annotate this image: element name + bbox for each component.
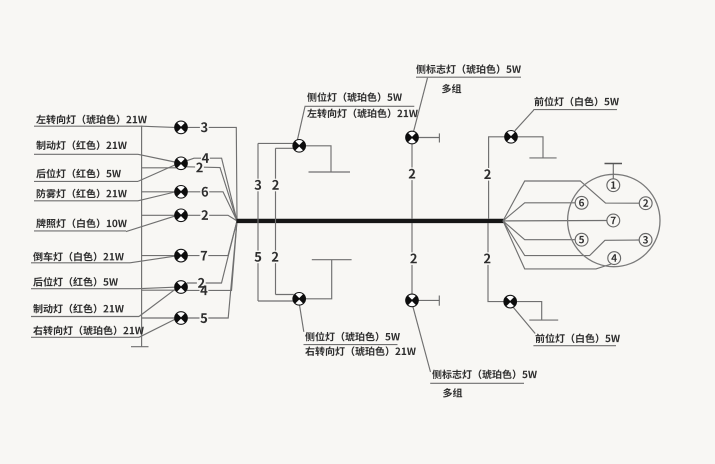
lamp SM1 side marker top [406, 131, 419, 144]
text: 2 [409, 169, 416, 179]
wire circuit 2 wire L6 [187, 221, 237, 283]
wire circuit 3 horizontal [258, 142, 294, 144]
wire label underline brake left [34, 153, 138, 155]
connector pin 3 [639, 234, 652, 247]
text: 侧标志灯（琥珀色）5W [416, 64, 425, 73]
wire label underline M1 [305, 105, 415, 107]
wire leader license plate [126, 216, 175, 231]
text: 6 [202, 187, 208, 197]
text: 倒车灯（白色）21W [33, 252, 42, 261]
connector pin 6 [575, 196, 588, 209]
wire leader side marker bottom label [413, 306, 431, 372]
wire circuit 2 horizontal top [276, 147, 294, 149]
lamp FP2 front position bottom [504, 295, 517, 308]
text: 前位灯（白色）5W [535, 97, 544, 106]
wire label underline M2 [304, 344, 398, 346]
ground bar FP2 [529, 319, 558, 321]
wire stub lamp L2 [142, 167, 176, 169]
lamp L3 fog [175, 186, 188, 199]
wire side marker top tail [418, 137, 439, 139]
wire lamp M1 ground lead [306, 146, 332, 172]
text: 4 [611, 254, 616, 261]
text: 5 [200, 313, 207, 323]
wire to pin 2 [503, 181, 639, 221]
lamp M1 side position/left turn front [293, 140, 306, 153]
wire circuit 4 wire L6 [187, 221, 237, 291]
wire stub lamp L4 [142, 214, 176, 216]
wire circuit 3 wire [187, 127, 237, 220]
text: 多组 [443, 388, 452, 397]
wire main harness trunk [237, 219, 504, 223]
connector pin 2 [639, 197, 652, 210]
connector pin 1 [607, 179, 620, 192]
lamp L6 tail/brake [175, 281, 188, 294]
ground bar M1 [309, 171, 351, 173]
wire leader side marker top label [414, 78, 428, 132]
wire branch circuit 2 vertical mid [275, 148, 277, 294]
wire to pin 4 [503, 221, 611, 269]
wire circuit 7 wire [187, 221, 237, 256]
text: 7 [201, 251, 207, 261]
wire leader brake left [138, 154, 175, 162]
connector pin 4 [608, 252, 621, 265]
wire circuit 4 wire upper [187, 158, 238, 221]
wire label underline front position bottom [533, 345, 616, 347]
text: 2 [484, 253, 491, 263]
wire lamp FP2 ground lead [516, 302, 541, 320]
text: 3 [201, 122, 208, 132]
text: 侧位灯（琥珀色）5W [305, 332, 314, 341]
lamp FP1 front position top [505, 131, 518, 144]
text: 5 [579, 236, 584, 244]
text: 7 [611, 217, 616, 224]
text: 右转向灯（琥珀色）21W [33, 326, 42, 335]
wire branch front position bottom [488, 223, 504, 302]
lamp L2 brake/tail [175, 157, 188, 170]
text: 前位灯（白色）5W [536, 334, 545, 343]
wire to pin 6 [503, 203, 575, 221]
terminal tick side marker top [438, 133, 440, 142]
ground bar FP1 [529, 157, 556, 159]
text: 4 [200, 286, 207, 296]
digit halos [200, 121, 209, 134]
wire leader label M2 [300, 305, 304, 332]
wire branch side marker bottom [411, 223, 413, 294]
wire leader left turn rear [142, 126, 175, 127]
text: 6 [579, 199, 584, 207]
text: 左转向灯（琥珀色）21W [36, 115, 45, 124]
lamp L5 reverse [175, 249, 188, 262]
text: 2 [196, 163, 203, 173]
wire leader label M1 [298, 107, 306, 140]
wire circuit 2 wire L4 [187, 215, 237, 221]
wire circuit 5 horizontal [258, 300, 294, 302]
wire stub lamp L5 [142, 255, 176, 257]
wire circuit 6 wire [187, 192, 237, 221]
wire leader reverse [130, 256, 175, 263]
wire label underline brake right [31, 316, 139, 318]
text: 2 [198, 278, 205, 288]
wire bus bottom tick [131, 346, 149, 348]
text: 侧标志灯（琥珀色）5W [432, 370, 441, 379]
text: 2 [410, 253, 417, 263]
ground bar M2 [312, 259, 352, 261]
text: 2 [643, 199, 648, 207]
wire label underline reverse [31, 262, 130, 264]
text: 右转向灯（琥珀色）21W [305, 347, 314, 356]
text: 后位灯（红色）5W [33, 277, 43, 286]
wire label underline rear fog [34, 200, 138, 202]
wire to pin 7 [503, 220, 607, 222]
connector pin 7 [607, 214, 620, 227]
lamp L7 right turn [175, 312, 188, 325]
text: 2 [272, 252, 279, 262]
wire label underline right turn rear [31, 336, 139, 338]
text: 制动灯（红色）21W [33, 304, 42, 313]
text: 多组 [442, 84, 451, 93]
text: 3 [643, 236, 648, 244]
text: 2 [202, 210, 209, 220]
wire leader front position top label [515, 110, 534, 131]
wire label underline left turn rear [34, 125, 142, 127]
wire stub lamp L6 [142, 289, 176, 291]
wire stub lamp L3 [142, 191, 176, 193]
connector socket outline [568, 174, 660, 266]
text: 4 [202, 153, 209, 163]
wire circuit 2 horizontal bottom [276, 294, 294, 296]
text: 2 [272, 180, 279, 190]
wire label bus vertical [141, 126, 143, 347]
wire circuit 2 wire L2 [187, 167, 237, 221]
wire leader rear fog [138, 192, 175, 201]
wire label underline side marker bottom [430, 382, 524, 384]
wire label underline tail right [31, 288, 138, 290]
text: 左转向灯（琥珀色）21W [307, 109, 316, 118]
wire to pin 5 [503, 221, 575, 240]
terminal tick side marker bottom [438, 296, 440, 306]
lamp L1 left turn [175, 121, 188, 134]
text: 牌照灯（白色）10W [36, 219, 45, 228]
connector index key above pin 1 [612, 164, 614, 179]
text: 5 [255, 252, 262, 262]
lamp SM2 side marker bottom [406, 294, 419, 307]
wire lamp FP1 ground lead [517, 137, 543, 158]
wire leader tail right [138, 287, 175, 289]
wire side marker bottom tail [418, 299, 439, 301]
text: 2 [484, 169, 491, 179]
text: 3 [255, 180, 262, 190]
connector pin 5 [575, 233, 588, 246]
wire branch circuit 3 vertical [257, 143, 259, 301]
wire label underline tail left [34, 180, 138, 182]
lamp L4 license [175, 209, 188, 222]
text: 后位灯（红色）5W [36, 169, 46, 178]
wire leader brake right [139, 290, 175, 317]
wire label underline front position top [533, 109, 617, 111]
text: 1 [611, 181, 616, 188]
wire lamp M2 ground lead [306, 260, 332, 299]
text: 制动灯（红色）21W [36, 141, 45, 150]
wire leader right turn rear [139, 319, 175, 337]
lamp M2 side position/right turn front [293, 293, 306, 306]
wire stub lamp L7 [142, 317, 176, 319]
wire leader tail left [138, 165, 175, 181]
text: 侧位灯（琥珀色）5W [307, 92, 316, 101]
wire label underline license plate [34, 230, 126, 232]
wire branch front position top [489, 137, 505, 219]
wire label underline side marker top [416, 76, 521, 78]
text: 防雾灯（红色）21W [37, 189, 46, 199]
wire circuit 5 wire [187, 221, 237, 318]
wire to pin 3 [503, 221, 639, 256]
wire branch side marker top [411, 144, 413, 219]
wire leader front position bottom label [513, 307, 535, 334]
